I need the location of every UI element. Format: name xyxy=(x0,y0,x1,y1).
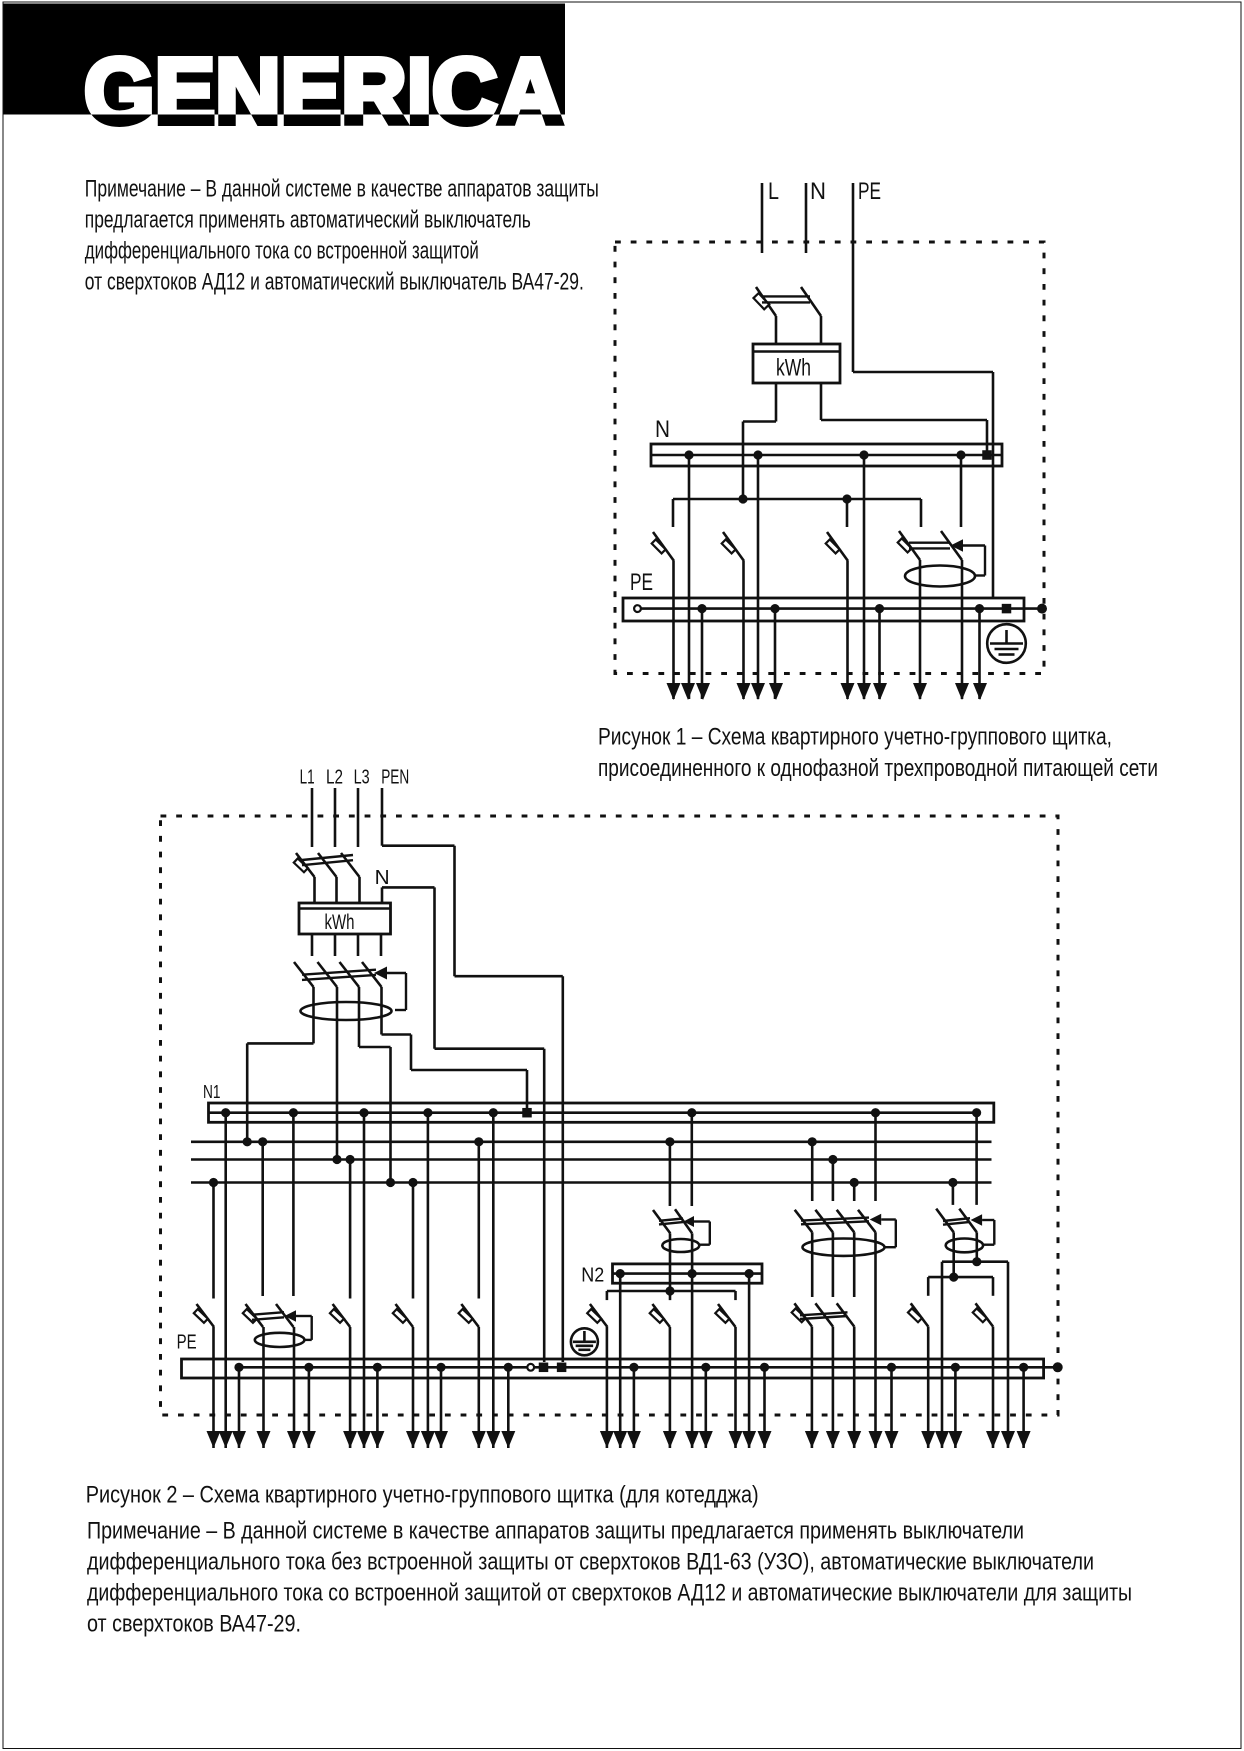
outgoing feeder arrow 1.8 xyxy=(857,683,871,700)
RCD QD10 trip arrow tail xyxy=(387,973,406,1010)
wire phase drop group 3 xyxy=(349,1160,352,1299)
sub breaker QF23 blade xyxy=(715,1304,735,1327)
group breaker QF13 blade xyxy=(393,1304,413,1327)
RCBO QD1 differential transformer xyxy=(905,566,975,587)
wire L2 input xyxy=(334,788,337,847)
wire QF1 to meter xyxy=(776,316,821,344)
outgoing feeder arrow 2.8 xyxy=(357,1431,371,1448)
sub panel C phase distribution xyxy=(928,1277,993,1296)
RCD QD40 trip arrow tail xyxy=(982,1220,994,1245)
wire N2 neutral sub 3 xyxy=(748,1274,751,1448)
outgoing feeder arrow 1.12 xyxy=(973,683,987,700)
ground symbol figure 2 xyxy=(571,1328,598,1355)
svg-text:Примечание – В данной системе: Примечание – В данной системе в качестве… xyxy=(85,176,599,203)
PE bus bar figure 2 xyxy=(182,1359,1044,1378)
RCD QD10 pole 1 blade xyxy=(294,962,314,987)
outgoing feeder arrow 2.19 xyxy=(663,1431,677,1448)
wire L3 input xyxy=(357,788,360,847)
N bus bar xyxy=(651,444,1002,466)
wire phase drop group 5 xyxy=(477,1142,480,1299)
outgoing feeder arrow 2.1 xyxy=(207,1431,221,1448)
wire PE tap 9 xyxy=(890,1367,893,1448)
wire group 3 output xyxy=(846,561,849,699)
sub breaker QF41 blade xyxy=(908,1303,928,1326)
RCD QD20 trip arrow tail xyxy=(694,1222,710,1245)
wire PE tap group 1 xyxy=(701,609,704,699)
outgoing feeder arrow 2.13 xyxy=(472,1431,486,1448)
junction PE tap 10 xyxy=(951,1363,960,1372)
wire L input xyxy=(761,183,764,253)
RCD QD30 pole 3 blade xyxy=(837,1210,855,1233)
outgoing feeder arrow 2.31 xyxy=(935,1431,949,1448)
svg-text:kWh: kWh xyxy=(325,911,355,934)
RCD QD20 linkage bar xyxy=(659,1219,683,1225)
wire neutral group 1 xyxy=(224,1113,227,1448)
junction PE group 4 xyxy=(975,604,984,613)
wire RCBO neutral output xyxy=(961,560,964,699)
svg-text:N: N xyxy=(655,416,670,443)
junction N1 bus group 2 xyxy=(289,1108,298,1117)
outgoing feeder arrow 1.4 xyxy=(737,683,751,700)
wire PE tap 8 xyxy=(763,1367,766,1448)
RCD QD30 trip arrow head xyxy=(870,1214,882,1226)
junction N1 bus group 4 xyxy=(423,1108,432,1117)
RCBO QD11 differential transformer xyxy=(255,1333,305,1347)
outgoing feeder arrow 2.6 xyxy=(302,1431,316,1448)
outgoing feeder arrow 1.11 xyxy=(955,683,969,700)
wire neutral group 5 xyxy=(492,1113,495,1448)
sub breaker QF22 blade xyxy=(650,1304,670,1327)
group breaker QF4 blade xyxy=(826,532,848,561)
junction N1 bus group 5 xyxy=(489,1108,498,1117)
svg-text:kWh: kWh xyxy=(776,355,811,382)
kWh meter box figure 2 xyxy=(299,903,391,934)
sub breaker QF31 pole 3 blade xyxy=(837,1303,855,1326)
junction PE tap 6 xyxy=(629,1363,638,1372)
RCD QD10 pole 2 blade xyxy=(318,962,338,987)
outgoing feeder arrow 2.10 xyxy=(406,1431,420,1448)
junction N1 bus RCD C xyxy=(972,1108,981,1117)
node PE to enclosure figure 2 xyxy=(1053,1362,1063,1372)
PE bus wire figure 2 xyxy=(239,1366,1058,1369)
RCD QD30 linkage bar xyxy=(801,1218,869,1225)
junction PE tap 11 xyxy=(1019,1363,1028,1372)
wire phase drop RCD A xyxy=(669,1142,672,1206)
svg-text:N2: N2 xyxy=(581,1264,604,1286)
junction PE group 2 xyxy=(770,604,779,613)
wire neutral to RCD G2 xyxy=(292,1113,295,1296)
kWh meter box inner line xyxy=(753,350,840,352)
wire neutral to RCD C xyxy=(975,1113,978,1205)
RCBO QD1 trip arrow tail xyxy=(963,546,985,576)
wire group 5 output xyxy=(477,1327,480,1448)
kWh meter box xyxy=(753,344,840,383)
svg-text:Рисунок 1 – Схема квартирного: Рисунок 1 – Схема квартирного учетно-гру… xyxy=(598,723,1112,750)
svg-text:L1: L1 xyxy=(300,766,315,788)
RCBO QD1 neutral blade xyxy=(941,531,962,560)
RCBO QD1 trip arrow head xyxy=(951,539,964,551)
wire sub 1 output xyxy=(606,1327,609,1448)
wires QF10 to meter xyxy=(315,877,360,903)
RCD QD10 linkage bar xyxy=(302,970,376,980)
RCD QD20 phase blade xyxy=(653,1210,670,1233)
PE bus wire xyxy=(641,607,1042,610)
outgoing feeder arrow 1.1 xyxy=(667,683,681,700)
junction C neutral xyxy=(972,1257,981,1266)
svg-text:дифференциального тока со встр: дифференциального тока со встроенной защ… xyxy=(87,1580,1132,1607)
junction rail 1 feed xyxy=(243,1137,252,1146)
RCD QD20 differential transformer xyxy=(662,1239,699,1252)
wire PEN input run xyxy=(382,788,563,1362)
phase rail 2 xyxy=(191,1158,992,1161)
junction rail 3 group 4 tap xyxy=(408,1178,417,1187)
main breaker QF1 linkage bar xyxy=(762,296,810,302)
svg-text:от сверхтоков АД12 и автоматич: от сверхтоков АД12 и автоматический выкл… xyxy=(85,269,584,296)
outgoing feeder arrow 2.14 xyxy=(486,1431,500,1448)
phase distribution wire xyxy=(673,499,921,527)
wire QD40 phase output xyxy=(952,1232,955,1277)
wire neutral to RCD A xyxy=(690,1113,693,1206)
junction PE group 1 xyxy=(697,604,706,613)
svg-text:N1: N1 xyxy=(203,1081,221,1102)
wire meter L output to distribution xyxy=(743,383,776,499)
svg-text:PE: PE xyxy=(630,569,653,596)
RCD QD10 pole 3 blade xyxy=(340,962,360,987)
outgoing feeder arrow 2.5 xyxy=(287,1431,301,1448)
wires QD30 phase outputs xyxy=(812,1232,854,1297)
svg-text:PE: PE xyxy=(858,178,881,205)
sub panel phase distribution xyxy=(607,1291,736,1300)
outgoing feeder arrow 2.22 xyxy=(729,1431,743,1448)
wire QD40 neutral output xyxy=(975,1232,978,1261)
wire phase drop RCD G2 xyxy=(261,1142,264,1296)
RCBO QD11 trip arrow tail xyxy=(296,1316,312,1340)
outgoing feeder arrow 1.2 xyxy=(681,683,695,700)
svg-text:L2: L2 xyxy=(326,766,343,788)
PE bus open terminal xyxy=(527,1364,534,1371)
sub breaker QF31 pole 1 blade with release box xyxy=(792,1303,812,1326)
outgoing feeder arrow 2.32 xyxy=(948,1431,962,1448)
figure 1 dashed enclosure xyxy=(615,242,1044,674)
outgoing feeder arrow 2.9 xyxy=(370,1431,384,1448)
wire PE tap 11 xyxy=(1022,1367,1025,1448)
wire PE tap 6 xyxy=(633,1367,636,1448)
wire phase drop group 1 xyxy=(212,1183,215,1299)
wire PE tap 4 xyxy=(440,1367,443,1448)
RCD QD10 pole N blade xyxy=(362,962,382,987)
RCBO QD11 neutral blade xyxy=(276,1304,294,1327)
wire group 4 output xyxy=(412,1327,415,1448)
junction PE tap 1 xyxy=(234,1363,243,1372)
wire neutral group 3 xyxy=(363,1113,366,1448)
outgoing feeder arrow 2.28 xyxy=(869,1431,883,1448)
junction rail 1 group 2 tap xyxy=(258,1137,267,1146)
wire PE tap 7 xyxy=(704,1367,707,1448)
outgoing feeder arrow 2.16 xyxy=(600,1431,614,1448)
wire QD20 phase output to sub distribution xyxy=(669,1233,672,1300)
junction C phase xyxy=(949,1273,958,1282)
junction PE tap 8 xyxy=(760,1363,769,1372)
junction PE group 3 xyxy=(875,604,884,613)
junction rail 2 RCD B tap xyxy=(828,1155,837,1164)
wire L1 input xyxy=(311,788,314,847)
junction rail 2 feed xyxy=(332,1155,341,1164)
svg-text:L: L xyxy=(768,178,779,205)
wire PE input run to right xyxy=(853,183,993,599)
RCD QD10 trip arrow head xyxy=(374,967,387,980)
main breaker QF10 pole 3 blade xyxy=(341,853,360,877)
sub breaker QF31 linkage bar xyxy=(800,1312,848,1319)
junction N1 bus RCD A xyxy=(687,1108,696,1117)
wire N2 neutral sub 1 xyxy=(619,1274,622,1448)
wire PE tap 1 xyxy=(238,1367,241,1448)
PE bus bar xyxy=(623,598,1024,621)
wire neutral group 4 xyxy=(427,1113,430,1448)
junction rail 3 feed xyxy=(386,1178,395,1187)
wire PE tap 2 xyxy=(308,1367,311,1448)
wire PE tap 10 xyxy=(954,1367,957,1448)
N1 bus wire xyxy=(209,1111,977,1114)
wire sub C1 output xyxy=(927,1327,930,1449)
outgoing feeder arrow 1.5 xyxy=(751,683,765,700)
wire N input xyxy=(805,183,808,253)
svg-text:от сверхтоков ВА47-29.: от сверхтоков ВА47-29. xyxy=(87,1611,301,1638)
wire meter N output to N bus xyxy=(821,383,987,451)
wire neutral to RCD xyxy=(960,455,963,527)
wire PE tap group 4 xyxy=(978,609,981,699)
wire sub 3 output xyxy=(734,1327,737,1448)
sub panel C neutral distribution xyxy=(942,1262,1008,1448)
wire group 3 output xyxy=(349,1327,352,1448)
N2 bus wire xyxy=(613,1272,763,1275)
svg-text:дифференциального тока со встр: дифференциального тока со встроенной защ… xyxy=(85,238,479,265)
sub breaker QF31 pole 2 blade xyxy=(815,1303,833,1326)
group breaker QF14 blade xyxy=(459,1304,479,1327)
PE bus left terminal xyxy=(634,605,641,612)
junction N1 bus RCD B xyxy=(871,1108,880,1117)
svg-text:PE: PE xyxy=(177,1331,197,1353)
junction N2 sub 3 xyxy=(745,1269,754,1278)
junction N bus group 1 xyxy=(684,450,693,459)
wire PE tap 3 xyxy=(376,1367,379,1448)
wire group 1 output xyxy=(672,561,675,699)
RCD QD30 differential transformer xyxy=(803,1239,885,1256)
junction rail 3 group 1 tap xyxy=(209,1178,218,1187)
junction N bus group 2 xyxy=(753,450,762,459)
node PE to enclosure xyxy=(1037,604,1047,614)
outgoing feeder arrow 2.30 xyxy=(921,1431,935,1448)
wire RCBO QD11 phase output xyxy=(262,1327,265,1448)
group breaker QF12 blade xyxy=(330,1304,350,1327)
wire sub C2 output xyxy=(992,1327,995,1449)
wire neutral group 2 xyxy=(757,455,760,699)
junction N1 bus group 3 xyxy=(359,1108,368,1117)
group breaker QF2 blade xyxy=(652,532,674,561)
outgoing feeder arrow 2.25 xyxy=(805,1431,819,1448)
N bus wire xyxy=(651,454,1002,457)
sub breaker QF21 blade xyxy=(587,1304,607,1327)
wire QD10 pole1 out to rail 1 xyxy=(247,987,313,1142)
wire neutral group 1 xyxy=(688,455,691,699)
wire QD10 neutral out to N1 bus xyxy=(382,987,528,1108)
junction N2 feed xyxy=(688,1269,697,1278)
N2 bus bar xyxy=(613,1264,763,1283)
RCD QD10 differential transformer xyxy=(301,1002,392,1020)
outgoing feeder arrow 1.10 xyxy=(913,683,927,700)
junction PE tap 5 xyxy=(504,1363,513,1372)
wire neutral to RCD B xyxy=(874,1113,877,1201)
outgoing feeder arrow 1.3 xyxy=(696,683,710,700)
outgoing feeder arrow 2.35 xyxy=(1017,1431,1031,1448)
junction PE tap 9 xyxy=(887,1363,896,1372)
outgoing feeder arrow 2.7 xyxy=(343,1431,357,1448)
RCBO QD1 linkage bar xyxy=(909,543,950,549)
logo black band xyxy=(4,4,566,115)
wire phase drops RCD B xyxy=(812,1142,854,1201)
RCD QD40 neutral blade xyxy=(959,1209,977,1233)
outgoing feeder arrow 2.18 xyxy=(627,1431,641,1448)
wire QD20 neutral output through N2 xyxy=(691,1233,694,1448)
junction N1 bus group 1 xyxy=(221,1108,230,1117)
wire QD10 pole3 out to rail 3 xyxy=(359,987,391,1183)
outgoing feeder arrow 1.9 xyxy=(873,683,887,700)
RCD QD40 phase blade xyxy=(936,1209,954,1233)
junction rail 3 RCD C tap xyxy=(948,1178,957,1187)
junction sub distribution xyxy=(665,1286,674,1295)
wire PE tap 5 xyxy=(507,1367,510,1448)
junction PE tap 3 xyxy=(373,1363,382,1372)
svg-text:L3: L3 xyxy=(354,766,370,788)
main breaker QF1 pole L blade with release box xyxy=(753,287,776,316)
junction rail 3 RCD B tap xyxy=(850,1178,859,1187)
N1 bus bar xyxy=(209,1103,994,1122)
main breaker QF1 pole N blade xyxy=(801,287,821,316)
outgoing feeder arrow 2.24 xyxy=(758,1431,772,1448)
outgoing feeder arrow 1.6 xyxy=(769,683,783,700)
RCD QD40 linkage bar xyxy=(943,1218,970,1225)
outgoing feeder arrow 2.15 xyxy=(501,1431,515,1448)
svg-text:Рисунок 2 – Схема квартирного: Рисунок 2 – Схема квартирного учетно-гру… xyxy=(86,1482,759,1509)
group breaker QF3 blade xyxy=(722,532,744,561)
wires meter outputs xyxy=(312,934,381,956)
svg-text:N: N xyxy=(375,867,390,889)
svg-text:присоединенного к однофазной т: присоединенного к однофазной трехпроводн… xyxy=(598,755,1158,782)
junction N bus group 3 xyxy=(859,450,868,459)
outgoing feeder arrow 2.17 xyxy=(613,1431,627,1448)
main breaker QF10 linkage bar xyxy=(302,855,353,865)
RCD QD30 trip arrow tail xyxy=(881,1220,896,1248)
outgoing feeder arrow 2.2 xyxy=(219,1431,233,1448)
RCD QD30 pole 1 blade xyxy=(795,1210,813,1233)
junction rail 2 group 3 tap xyxy=(346,1155,355,1164)
outgoing feeder arrow 2.27 xyxy=(847,1431,861,1448)
PE bus terminal xyxy=(1002,604,1012,614)
svg-text:PEN: PEN xyxy=(381,766,409,788)
phase rail 3 xyxy=(191,1181,992,1184)
outgoing feeder arrow 2.34 xyxy=(1001,1431,1015,1448)
junction rail 1 RCD B tap xyxy=(808,1137,817,1146)
PE bus terminal N link xyxy=(539,1363,549,1373)
junction distribution group 2 xyxy=(738,494,747,503)
outgoing feeder arrow 2.21 xyxy=(699,1431,713,1448)
wire meter N terminal jog to PE bus xyxy=(382,887,544,1362)
main breaker QF10 pole 2 blade xyxy=(318,853,337,877)
main breaker QF10 pole 1 blade with release box xyxy=(294,853,315,877)
wires QF31 outputs xyxy=(812,1327,854,1449)
svg-text:предлагается применять автомат: предлагается применять автоматический вы… xyxy=(85,207,531,234)
wire group 1 output xyxy=(212,1327,215,1448)
RCBO QD11 phase blade with release box xyxy=(243,1304,263,1327)
junction N bus group 4 xyxy=(956,450,965,459)
RCBO QD11 linkage bar xyxy=(252,1312,284,1320)
RCBO QD11 trip arrow head xyxy=(285,1310,297,1322)
wire PE tap group 2 xyxy=(774,609,777,699)
RCD QD40 trip arrow head xyxy=(971,1214,983,1226)
RCD QD20 neutral blade xyxy=(675,1209,692,1233)
outgoing feeder arrow 2.26 xyxy=(826,1431,840,1448)
outgoing feeder arrow 2.11 xyxy=(421,1431,435,1448)
outgoing feeder arrow 2.33 xyxy=(986,1431,1000,1448)
outgoing feeder arrow 1.7 xyxy=(841,683,855,700)
figure 2 dashed enclosure xyxy=(161,816,1059,1415)
junction distribution group 3 xyxy=(842,494,851,503)
svg-text:Примечание – В данной системе: Примечание – В данной системе в качестве… xyxy=(87,1518,1024,1545)
wire RCBO phase output xyxy=(919,560,922,699)
junction PE tap 4 xyxy=(436,1363,445,1372)
outgoing feeder arrow 2.20 xyxy=(685,1431,699,1448)
ground symbol figure 1 xyxy=(987,624,1026,663)
phase rail 1 xyxy=(191,1141,992,1144)
RCD QD20 trip arrow head xyxy=(684,1216,695,1227)
wire PE tap group 3 xyxy=(878,609,881,699)
junction PE tap 7 xyxy=(701,1363,710,1372)
svg-text:N: N xyxy=(810,178,826,205)
sub breaker QF42 blade xyxy=(973,1303,993,1326)
wire QD10 pole2 out to rail 2 xyxy=(336,987,339,1160)
RCD QD30 neutral blade xyxy=(858,1210,876,1233)
junction PE tap 2 xyxy=(304,1363,313,1372)
N1 bus feed terminal xyxy=(522,1108,532,1118)
outgoing feeder arrow 2.4 xyxy=(257,1431,271,1448)
junction rail 1 group 5 tap xyxy=(474,1137,483,1146)
RCD QD30 pole 2 blade xyxy=(815,1210,833,1233)
wire sub 2 output xyxy=(669,1327,672,1448)
outgoing feeder arrow 2.29 xyxy=(885,1431,899,1448)
svg-text:дифференциального тока без вст: дифференциального тока без встроенной за… xyxy=(87,1549,1094,1576)
N bus feed terminal xyxy=(982,450,992,460)
PE bus terminal PEN link xyxy=(557,1363,567,1373)
outgoing feeder arrow 2.12 xyxy=(434,1431,448,1448)
group breaker QF11 blade xyxy=(194,1304,214,1327)
RCD QD40 differential transformer xyxy=(946,1239,983,1253)
outgoing feeder arrow 2.23 xyxy=(742,1431,756,1448)
RCBO QD1 phase blade with release box xyxy=(898,531,920,560)
wire phase drop RCD C xyxy=(952,1183,955,1205)
junction N2 sub 1 xyxy=(616,1269,625,1278)
wire neutral group 3 xyxy=(863,455,866,699)
wire RCBO QD11 neutral output xyxy=(293,1327,296,1448)
wire group 2 output xyxy=(742,561,745,699)
junction rail 1 RCD A tap xyxy=(665,1137,674,1146)
kWh meter box inner line figure 2 xyxy=(299,907,391,909)
outgoing feeder arrow 2.3 xyxy=(232,1431,246,1448)
wire QD30 neutral output xyxy=(874,1232,877,1448)
wire phase drop group 4 xyxy=(412,1183,415,1299)
